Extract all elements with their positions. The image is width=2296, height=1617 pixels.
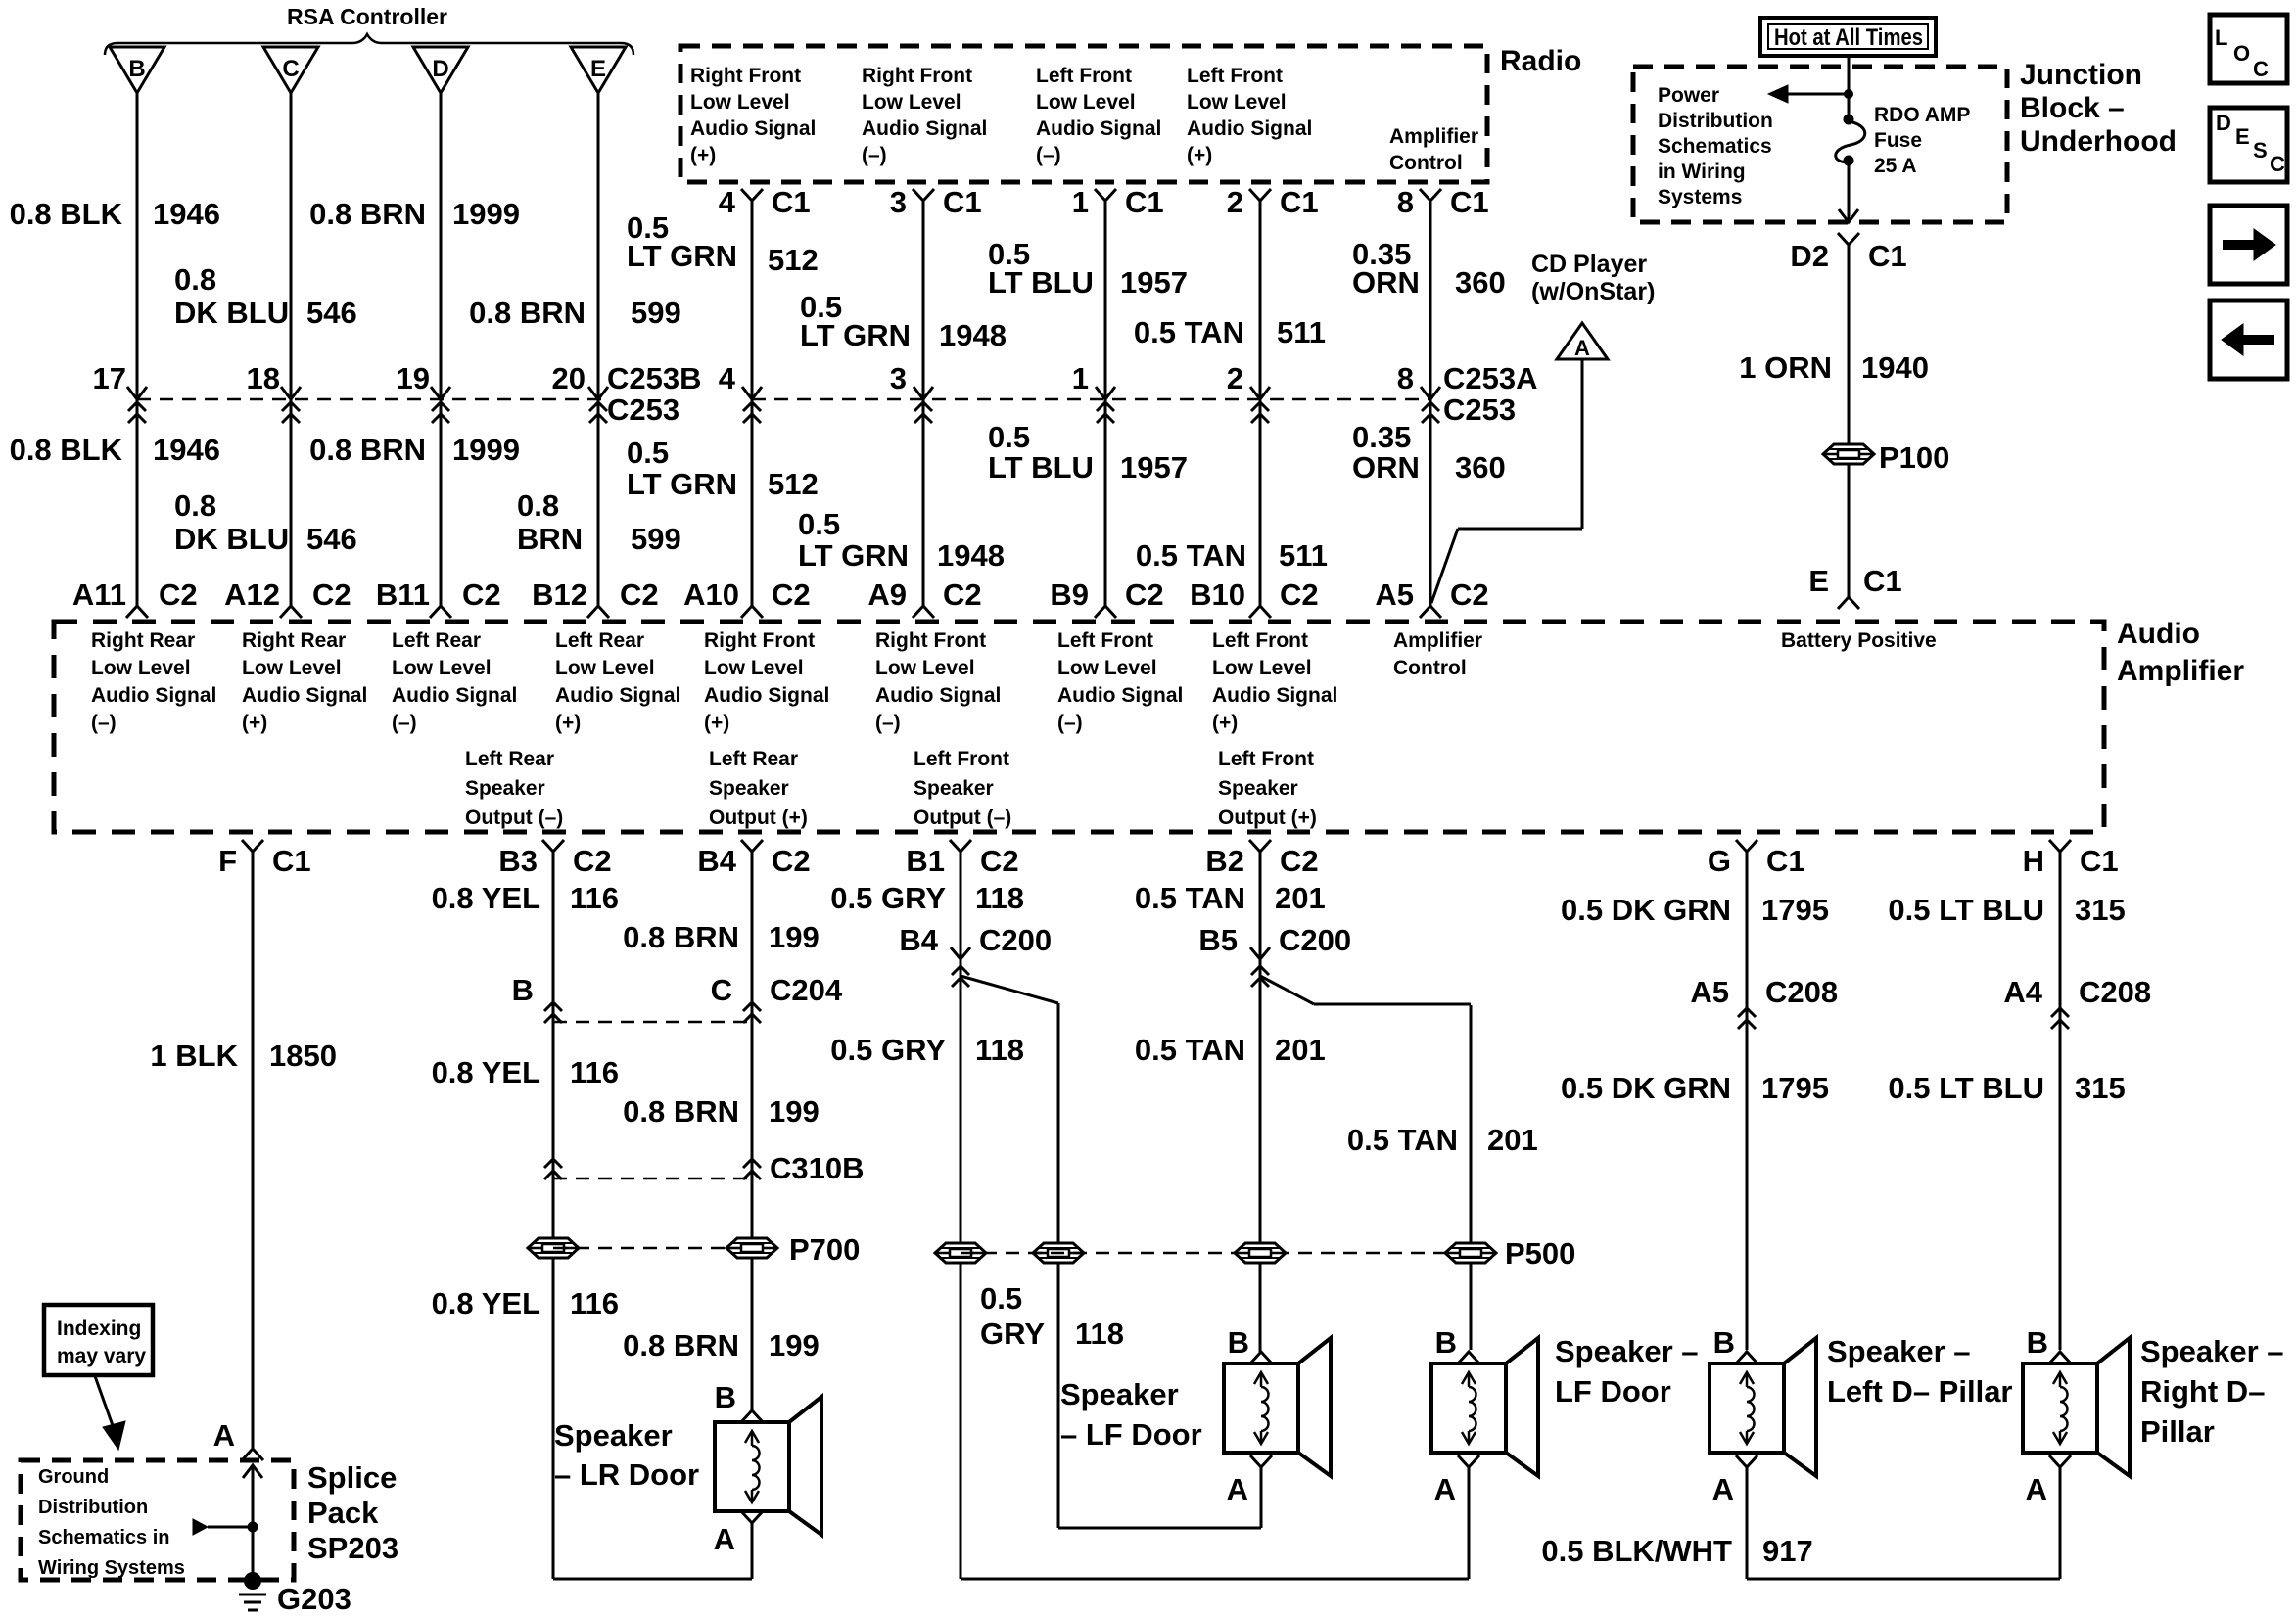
svg-text:A5: A5	[1690, 975, 1729, 1009]
svg-text:C2: C2	[1125, 577, 1164, 612]
svg-text:(–): (–)	[875, 712, 901, 734]
amp bottom pin fork F C1	[242, 840, 263, 852]
svg-text:Low Level: Low Level	[1036, 91, 1136, 114]
connector label C310B	[770, 1151, 865, 1185]
connector C253 arrow at x=297	[281, 387, 301, 399]
svg-text:B10: B10	[1190, 577, 1245, 612]
wire label 0.8 BRN 599 (upper)	[469, 296, 681, 330]
svg-text:315: 315	[2075, 893, 2126, 927]
connector C204 chevrons C side	[743, 1002, 761, 1023]
wire RSA A11 lower segment	[136, 399, 139, 606]
svg-text:may vary: may vary	[57, 1345, 146, 1367]
svg-text:Distribution: Distribution	[1658, 110, 1773, 132]
wire B1 branch diagonal	[961, 976, 1058, 1003]
junction dot	[1844, 89, 1853, 99]
svg-text:Speaker: Speaker	[465, 777, 545, 800]
svg-text:A5: A5	[1375, 577, 1414, 612]
wire radio pin 8 upper segment	[1429, 201, 1432, 398]
splice pack pin fork A	[242, 1449, 263, 1460]
pin numbers 17 18 19 20	[93, 361, 586, 395]
svg-text:116: 116	[570, 881, 619, 915]
pin label A at splice pack	[213, 1418, 235, 1453]
svg-text:116: 116	[570, 1286, 619, 1320]
wire B2 branch diagonal	[1260, 976, 1471, 1004]
connector C253 chevrons at x=1461	[1422, 402, 1439, 423]
amp bottom pin fork G C1	[1736, 840, 1757, 852]
svg-text:0.8 BRN: 0.8 BRN	[623, 920, 739, 954]
svg-text:201: 201	[1275, 881, 1326, 915]
pin labels A11 C2	[72, 577, 198, 612]
grommet label P500	[1505, 1236, 1575, 1270]
svg-text:0.35: 0.35	[1352, 420, 1411, 454]
svg-text:B: B	[1713, 1325, 1735, 1360]
svg-text:C1: C1	[1868, 239, 1907, 273]
Splice Pack SP203 label	[307, 1460, 398, 1565]
connector C208 chevrons H	[2051, 1008, 2069, 1029]
svg-text:C2: C2	[1280, 577, 1319, 612]
svg-text:A11: A11	[72, 577, 126, 612]
svg-text:C2: C2	[1450, 577, 1489, 612]
pin labels B10 C2	[1190, 577, 1319, 612]
svg-text:Battery Positive: Battery Positive	[1781, 629, 1937, 652]
wire radio pin 3 lower segment	[922, 399, 925, 606]
svg-text:C2: C2	[772, 577, 811, 612]
connector C253 arrow at x=1461	[1421, 387, 1440, 399]
wire B1 segment 1	[960, 852, 962, 1579]
amp pin fork A11	[126, 606, 148, 618]
svg-text:0.5 TAN: 0.5 TAN	[1135, 881, 1245, 915]
connector C200 chevrons right	[1251, 966, 1269, 987]
splice pack branch arrow	[193, 1519, 253, 1535]
connector C208 chevrons G	[1738, 1008, 1756, 1029]
svg-text:C2: C2	[980, 844, 1019, 878]
svg-text:Output (+): Output (+)	[1218, 807, 1317, 829]
pin label B at LR speaker	[715, 1380, 736, 1414]
pin labels H C1	[2023, 844, 2119, 878]
svg-text:917: 917	[1762, 1534, 1813, 1568]
wire RSA B11 lower segment	[440, 399, 443, 606]
connector P700 dashed line	[553, 1247, 752, 1250]
svg-text:L: L	[2215, 25, 2227, 50]
amp bottom pin fork B1 C2	[950, 840, 971, 852]
Amplifier pin function text at x=1080	[1057, 629, 1183, 734]
svg-text:C2: C2	[573, 844, 612, 878]
svg-text:Right Front: Right Front	[704, 629, 815, 652]
pin label A at Left D-pillar speaker	[1712, 1472, 1734, 1506]
svg-text:315: 315	[2075, 1071, 2126, 1105]
wire B1 branch vertical	[1057, 1003, 1060, 1528]
svg-text:(–): (–)	[862, 144, 887, 166]
svg-text:Audio Signal: Audio Signal	[875, 684, 1001, 707]
svg-text:599: 599	[631, 296, 681, 330]
connector C253 dashed line	[137, 398, 1430, 401]
connector C253 arrow at x=611	[588, 387, 608, 399]
arrow at junction box exit	[1839, 209, 1858, 222]
wire label 0.8 DK BLU 546 (lower)	[174, 488, 357, 556]
svg-text:C1: C1	[2080, 844, 2119, 878]
Splice Pack dashed box	[21, 1460, 294, 1580]
pin labels 1 C1	[1072, 185, 1164, 219]
svg-text:E: E	[1808, 564, 1829, 598]
pin label B at LF speaker 1	[1228, 1325, 1249, 1360]
svg-text:CD Player: CD Player	[1531, 251, 1647, 278]
svg-text:Audio Signal: Audio Signal	[1036, 117, 1161, 140]
svg-text:(–): (–)	[1036, 144, 1061, 166]
svg-text:Audio Signal: Audio Signal	[1187, 117, 1312, 140]
RSA Controller connector triangle C	[263, 47, 318, 93]
svg-text:B2: B2	[1205, 844, 1244, 878]
fuse RDO AMP 25A	[1836, 115, 1865, 166]
svg-text:0.5 LT BLU: 0.5 LT BLU	[1888, 893, 2044, 927]
svg-text:Audio Signal: Audio Signal	[242, 684, 367, 707]
svg-text:C253B: C253B	[607, 361, 702, 395]
speaker LR Door	[715, 1397, 821, 1535]
svg-text:19: 19	[397, 361, 430, 395]
wire label 0.5 TAN 511 (upper)	[1134, 315, 1326, 349]
amp pin fork A12	[280, 606, 302, 618]
D-pillar bottom wire	[1747, 1578, 2060, 1581]
wire label 0.5 TAN 201 (branch)	[1347, 1123, 1538, 1157]
Radio pin function text at x=1212	[1187, 65, 1312, 166]
connector C253 chevrons at x=768	[743, 402, 761, 423]
pin labels B4 C200	[899, 923, 1052, 957]
svg-text:C204: C204	[770, 973, 843, 1007]
amp pin fork A10	[741, 606, 763, 618]
Right D-pillar speaker pin fork A	[2049, 1455, 2071, 1467]
radio pin fork 4 C1	[741, 189, 763, 201]
pin labels B1 C2	[906, 844, 1018, 878]
wire RSA A11 upper segment	[136, 93, 139, 398]
fuse label RDO AMP Fuse 25 A	[1874, 104, 1970, 177]
svg-text:Right Front: Right Front	[690, 65, 801, 87]
wire label 0.8 YEL 116 (2)	[432, 1055, 619, 1089]
svg-text:Low Level: Low Level	[1212, 657, 1312, 679]
svg-text:(+): (+)	[690, 144, 716, 166]
connector label C253A / C253 right	[1443, 361, 1538, 427]
svg-text:H: H	[2023, 844, 2044, 878]
connector C253 arrow at x=1129	[1096, 387, 1115, 399]
wire RSA B11 upper segment	[440, 93, 443, 398]
svg-text:RSA Controller: RSA Controller	[287, 4, 447, 29]
Hot at All Times text	[1774, 24, 1923, 51]
Left D-pillar speaker pin fork B	[1736, 1352, 1757, 1363]
LR speaker pin fork B	[741, 1410, 763, 1422]
pin labels A12 C2	[224, 577, 351, 612]
Radio pin function text at x=705	[690, 65, 816, 166]
pin numbers 4 3 1 2 8 at C253	[719, 361, 1414, 395]
svg-text:1940: 1940	[1861, 350, 1929, 385]
amp bottom pin fork B2 C2	[1249, 840, 1271, 852]
wire label 0.5 LT GRN 1948 (upper)	[800, 290, 1007, 352]
connector C253 arrow at x=140	[127, 387, 147, 399]
wire label 0.5 GRY 118 (1)	[830, 881, 1024, 915]
pin labels 2 C1	[1227, 185, 1319, 219]
wire Right D-pillar A down	[2059, 1467, 2062, 1579]
svg-text:C1: C1	[772, 185, 811, 219]
Ground Distribution text	[38, 1466, 185, 1579]
pin label A at LF speaker 2	[1434, 1472, 1456, 1506]
wire label 0.5 LT GRN 512 (upper)	[627, 210, 819, 277]
svg-text:P100: P100	[1879, 440, 1949, 475]
svg-text:Left Rear: Left Rear	[709, 748, 798, 770]
pin fork D2 C1	[1838, 233, 1859, 245]
svg-text:(–): (–)	[91, 712, 117, 734]
svg-text:1: 1	[1072, 361, 1089, 395]
connector C253 arrow at x=1287	[1250, 387, 1270, 399]
svg-text:1: 1	[1072, 185, 1089, 219]
svg-text:D2: D2	[1790, 239, 1829, 273]
svg-text:Low Level: Low Level	[392, 657, 492, 679]
svg-text:Indexing: Indexing	[57, 1317, 141, 1340]
svg-text:Output (–): Output (–)	[914, 807, 1011, 829]
connector C253 chevrons at x=1129	[1097, 402, 1114, 423]
LR speaker pin fork A	[741, 1511, 763, 1523]
svg-text:Power: Power	[1658, 84, 1719, 107]
svg-text:A9: A9	[867, 577, 907, 612]
wire label 1 BLK 1850	[150, 1039, 337, 1073]
Audio Amplifier title	[2117, 618, 2244, 687]
svg-text:Audio Signal: Audio Signal	[91, 684, 216, 707]
svg-text:(–): (–)	[1057, 712, 1083, 734]
wire radio pin 3 upper segment	[922, 201, 925, 398]
svg-text:A: A	[714, 1522, 735, 1556]
LF door 2 bottom wire	[961, 1578, 1469, 1581]
CD Player connector triangle A	[1557, 323, 1608, 360]
wire B2 to LF speaker 1	[1259, 1350, 1262, 1352]
svg-text:Left Front: Left Front	[1036, 65, 1132, 87]
wire label 0.8 BLK 1946 (upper)	[10, 197, 220, 231]
wire label 0.5 LT BLU 315 (2)	[1888, 1071, 2125, 1105]
RSA Controller brace	[105, 4, 633, 55]
svg-text:G203: G203	[277, 1582, 351, 1616]
svg-text:199: 199	[769, 1328, 820, 1363]
svg-text:1795: 1795	[1761, 1071, 1829, 1105]
pin label A at Right D-pillar speaker	[2026, 1472, 2047, 1506]
svg-text:E: E	[2235, 124, 2250, 149]
svg-text:(+): (+)	[555, 712, 581, 734]
Radio title	[1500, 45, 1581, 77]
speaker LF Door 1 label	[1060, 1377, 1202, 1452]
svg-text:360: 360	[1455, 450, 1506, 485]
Junction Block dashed box	[1633, 67, 2007, 222]
svg-text:C2: C2	[1280, 844, 1319, 878]
speaker LR Door label	[554, 1418, 699, 1492]
pass-through grommet P100	[1823, 444, 1874, 464]
wire label 0.8 BRN 1999 (upper)	[309, 197, 520, 231]
svg-text:Control: Control	[1389, 152, 1463, 174]
Indexing may vary box	[44, 1305, 153, 1375]
svg-text:0.5 DK GRN: 0.5 DK GRN	[1561, 893, 1731, 927]
svg-text:SP203: SP203	[307, 1531, 398, 1565]
ground label G203	[277, 1582, 351, 1616]
svg-text:3: 3	[890, 361, 907, 395]
svg-text:199: 199	[769, 920, 820, 954]
svg-text:C208: C208	[1765, 975, 1838, 1009]
wire label 0.5 TAN 201 (lower)	[1136, 538, 1328, 573]
CD Player label	[1531, 251, 1655, 305]
pin labels A10 C2	[683, 577, 811, 612]
pin labels G C1	[1708, 844, 1805, 878]
svg-text:Right Rear: Right Rear	[242, 629, 346, 652]
svg-text:1948: 1948	[937, 538, 1005, 573]
svg-text:(+): (+)	[242, 712, 267, 734]
pin labels D2 C1	[1790, 239, 1906, 273]
wire B4 segment 1	[751, 852, 754, 1410]
pin labels 8 C1	[1397, 185, 1489, 219]
svg-text:Audio Signal: Audio Signal	[862, 117, 987, 140]
amp pin fork A5	[1420, 606, 1441, 618]
amp pin fork A9	[913, 606, 934, 618]
wire RSA B12 lower segment	[597, 399, 600, 606]
connector C253 chevrons at x=140	[128, 402, 146, 423]
svg-text:1957: 1957	[1120, 265, 1188, 300]
amp pin fork B12	[587, 606, 609, 618]
svg-text:Low Level: Low Level	[91, 657, 191, 679]
pass-through grommet P700 left	[528, 1238, 579, 1258]
svg-text:Schematics in: Schematics in	[38, 1527, 170, 1548]
indexing arrow	[95, 1376, 125, 1450]
grommet label P700	[789, 1232, 860, 1267]
svg-text:LT GRN: LT GRN	[627, 467, 737, 501]
svg-text:511: 511	[1277, 315, 1326, 349]
svg-text:Output (+): Output (+)	[709, 807, 808, 829]
svg-text:Left Front: Left Front	[1187, 65, 1283, 87]
wire RSA A12 upper segment	[290, 93, 293, 398]
svg-text:546: 546	[306, 296, 357, 330]
wire B2 segment 1	[1259, 852, 1262, 1350]
svg-text:ORN: ORN	[1352, 450, 1420, 485]
svg-text:Right Front: Right Front	[862, 65, 972, 87]
svg-text:LT BLU: LT BLU	[988, 265, 1094, 300]
Amplifier pin function text at x=1238	[1212, 629, 1337, 734]
svg-text:1946: 1946	[153, 197, 220, 231]
svg-text:Low Level: Low Level	[862, 91, 961, 114]
svg-text:A: A	[1434, 1472, 1456, 1506]
svg-text:(+): (+)	[1212, 712, 1238, 734]
svg-text:Audio Signal: Audio Signal	[704, 684, 829, 707]
wire B3 segment 1	[552, 852, 555, 1579]
wire LF speaker 2 A down	[1468, 1467, 1471, 1579]
connector C310B dashed line	[553, 1178, 752, 1180]
svg-text:512: 512	[768, 243, 819, 277]
pin labels B12 C2	[532, 577, 659, 612]
Amplifier text Amplifier Control	[1393, 629, 1482, 679]
svg-text:360: 360	[1455, 265, 1506, 300]
wire LR speaker A down	[751, 1523, 754, 1579]
svg-text:Low Level: Low Level	[875, 657, 975, 679]
wire label 0.5 BLK/WHT 917	[1541, 1534, 1812, 1568]
svg-text:C1: C1	[943, 185, 982, 219]
Amplifier speaker output text at x=475	[465, 748, 563, 829]
svg-text:0.8 YEL: 0.8 YEL	[432, 1055, 540, 1089]
svg-text:B: B	[715, 1380, 736, 1414]
speaker LF Door 1	[1224, 1338, 1331, 1476]
wire junction to P100	[1848, 245, 1851, 445]
svg-text:Wiring Systems: Wiring Systems	[38, 1557, 185, 1579]
amp pin fork B9	[1095, 606, 1116, 618]
wire label 0.8 BRN 199 (3)	[623, 1328, 820, 1363]
svg-text:Output (–): Output (–)	[465, 807, 563, 829]
wire label 0.5 LT BLU 315 (1)	[1888, 893, 2125, 927]
svg-text:0.5 BLK/WHT: 0.5 BLK/WHT	[1541, 1534, 1732, 1568]
svg-text:F: F	[218, 844, 237, 878]
svg-text:118: 118	[1075, 1317, 1124, 1351]
pin labels A9 C2	[867, 577, 981, 612]
svg-text:P700: P700	[789, 1232, 860, 1267]
svg-text:C1: C1	[1863, 564, 1902, 598]
svg-text:C253: C253	[607, 393, 679, 427]
svg-text:LF Door: LF Door	[1555, 1374, 1671, 1409]
svg-text:DK BLU: DK BLU	[174, 522, 289, 556]
wire label 0.8 YEL 116 (1)	[432, 881, 619, 915]
wire label 0.5 LT BLU 1957 (upper)	[988, 237, 1188, 300]
svg-text:Speaker: Speaker	[554, 1418, 673, 1453]
svg-text:Splice: Splice	[307, 1460, 397, 1495]
svg-text:C1: C1	[1280, 185, 1319, 219]
svg-text:1948: 1948	[939, 318, 1007, 352]
connector C204 chevrons B side	[544, 1002, 562, 1023]
wire RSA B12 upper segment	[597, 93, 600, 398]
svg-text:Ground: Ground	[38, 1466, 109, 1488]
svg-text:0.8 YEL: 0.8 YEL	[432, 881, 540, 915]
wire label 0.8 BRN 199 (2)	[623, 1094, 820, 1129]
svg-text:C2: C2	[159, 577, 198, 612]
speaker Right D-Pillar label	[2140, 1334, 2284, 1449]
pin label A at LF speaker 1	[1227, 1472, 1248, 1506]
connector C253 chevrons at x=297	[282, 402, 300, 423]
svg-text:Radio: Radio	[1500, 45, 1581, 77]
svg-text:C1: C1	[1450, 185, 1489, 219]
wire radio pin 4 lower segment	[751, 399, 754, 606]
svg-text:0.8 YEL: 0.8 YEL	[432, 1286, 540, 1320]
amp bottom pin fork B4 C2	[741, 840, 763, 852]
pin label B at Left D-pillar speaker	[1713, 1325, 1735, 1360]
LF speaker 2 pin fork A	[1458, 1455, 1479, 1467]
svg-text:A4: A4	[2003, 975, 2042, 1009]
radio pin fork 3 C1	[913, 189, 934, 201]
svg-text:0.8: 0.8	[174, 488, 216, 523]
svg-text:Low Level: Low Level	[1057, 657, 1157, 679]
svg-text:C208: C208	[2079, 975, 2151, 1009]
speaker LF Door 2 label	[1555, 1334, 1699, 1409]
Amplifier pin function text at x=894	[875, 629, 1001, 734]
pin labels E C1	[1808, 564, 1901, 598]
svg-text:B: B	[1435, 1325, 1457, 1360]
wire G segment 1	[1746, 852, 1749, 1350]
pin labels 4 C1	[719, 185, 811, 219]
amp bottom pin fork B3 C2	[542, 840, 564, 852]
svg-text:0.5 GRY: 0.5 GRY	[830, 1033, 946, 1067]
svg-text:Speaker –: Speaker –	[2140, 1334, 2284, 1368]
wire label 0.5 LT GRN 512 (lower)	[627, 436, 819, 501]
wire F to splice pack	[252, 852, 255, 1449]
svg-text:0.5 LT BLU: 0.5 LT BLU	[1888, 1071, 2044, 1105]
svg-text:0.8 BLK: 0.8 BLK	[10, 197, 123, 231]
RSA Controller connector triangle B	[110, 47, 164, 93]
svg-text:Junction: Junction	[2020, 59, 2142, 91]
svg-text:A: A	[1227, 1472, 1248, 1506]
connector C253 chevrons at x=611	[589, 402, 607, 423]
svg-text:Left Front: Left Front	[1057, 629, 1153, 652]
svg-text:BRN: BRN	[517, 522, 583, 556]
svg-text:Right Front: Right Front	[875, 629, 986, 652]
svg-text:B3: B3	[498, 844, 538, 878]
speaker Right D-Pillar	[2023, 1338, 2130, 1476]
wire label 0.5 TAN 201 (2)	[1135, 1033, 1326, 1067]
connector C310B chevrons left	[544, 1159, 562, 1179]
svg-text:C253A: C253A	[1443, 361, 1538, 395]
Amplifier text Battery Positive	[1781, 629, 1937, 652]
